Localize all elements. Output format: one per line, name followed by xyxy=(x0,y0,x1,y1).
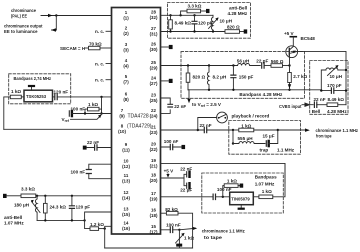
ground blob trimmer xyxy=(176,244,182,247)
capacitor 22 nF decoupling xyxy=(184,174,187,178)
svg-text:100 nF: 100 nF xyxy=(217,187,232,192)
junction at (218.7,117.8) xyxy=(218,117,220,119)
svg-text:(7): (7) xyxy=(123,80,129,85)
IC pin number labels left side xyxy=(118,10,130,231)
svg-text:1 kΩ: 1 kΩ xyxy=(227,179,237,184)
junction at (209,89.8) xyxy=(208,89,210,91)
resistor 1 kOhm shunt in box5 xyxy=(223,186,224,197)
svg-text:10: 10 xyxy=(124,159,129,164)
svg-text:Bandpass: Bandpass xyxy=(255,175,277,180)
wire pin 17 xyxy=(161,196,230,198)
svg-text:22 nF: 22 nF xyxy=(200,123,212,128)
svg-text:8.49 kΩ: 8.49 kΩ xyxy=(328,97,345,102)
resistor 8.49 kOhm CVBS xyxy=(317,104,327,106)
wire pin 26 to terminal xyxy=(161,46,169,48)
junction at (213,31.5) xyxy=(212,30,214,32)
svg-text:to Vref = 2.5 V: to Vref = 2.5 V xyxy=(192,102,222,108)
wire pin 18 xyxy=(161,177,185,179)
junction at (170.5,15.3) xyxy=(169,14,171,16)
wire pin 20 xyxy=(161,146,182,148)
wire pin 28 xyxy=(161,14,214,16)
svg-text:27: 27 xyxy=(151,26,156,31)
svg-text:22 nF: 22 nF xyxy=(180,167,192,172)
svg-text:28: 28 xyxy=(151,10,156,15)
svg-text:(15): (15) xyxy=(122,212,130,217)
+5 V arrow onto pin18 wire xyxy=(167,174,169,176)
wire pin 16 xyxy=(161,212,167,214)
svg-text:21: 21 xyxy=(151,124,156,129)
wire pin 7 xyxy=(72,113,112,115)
junction at (104.7,228.6) xyxy=(104,227,106,229)
dashed box trap 1.1 MHz xyxy=(229,121,301,155)
resistor 820 Ohm vertical shunt xyxy=(187,66,189,74)
svg-text:9: 9 xyxy=(125,142,128,147)
wire up to 3.3k xyxy=(181,11,187,15)
svg-text:(32): (32) xyxy=(150,15,158,20)
svg-text:n. c.: n. c. xyxy=(95,78,104,83)
svg-text:1 kΩ: 1 kΩ xyxy=(88,102,98,107)
terminal pin24 xyxy=(169,79,173,83)
arrowhead to Vref below 2.7 kOhm xyxy=(288,84,291,88)
wire pin 15 xyxy=(161,229,180,231)
svg-text:14: 14 xyxy=(124,221,129,226)
junction at (233.4,89.8) xyxy=(232,89,234,91)
svg-text:chrominance 1.1 MHz: chrominance 1.1 MHz xyxy=(316,128,359,133)
junction at (188,65.5) xyxy=(187,64,189,66)
junction at (71.9,220.4) xyxy=(71,219,73,221)
junction at (277.8,130) xyxy=(277,129,279,131)
junction at (179.4,229.8) xyxy=(178,229,180,231)
wire ground rail bottom xyxy=(105,247,193,249)
svg-text:22 pF: 22 pF xyxy=(256,58,268,63)
inductor 180 uH variable xyxy=(35,196,37,221)
capacitor 22 nF between pins 23-22 xyxy=(168,104,173,107)
+5 V supply bar xyxy=(290,36,296,38)
svg-text:EE to luminance: EE to luminance xyxy=(4,29,38,34)
svg-text:(31): (31) xyxy=(150,31,158,36)
svg-text:2.7 kΩ: 2.7 kΩ xyxy=(293,74,307,79)
svg-text:chrominance 1.1 MHz: chrominance 1.1 MHz xyxy=(202,229,246,234)
svg-text:(TDA4729): (TDA4729) xyxy=(127,123,152,129)
svg-text:15: 15 xyxy=(151,224,156,229)
svg-text:(19): (19) xyxy=(150,197,158,202)
svg-text:19: 19 xyxy=(151,158,156,163)
svg-text:3.3 kΩ: 3.3 kΩ xyxy=(188,3,202,8)
svg-text:to tape: to tape xyxy=(204,235,223,240)
junction at (37.1,195.8) xyxy=(36,195,38,197)
svg-text:(8): (8) xyxy=(123,97,129,102)
svg-text:8: 8 xyxy=(121,124,124,129)
svg-text:170 pF: 170 pF xyxy=(327,83,342,88)
inductor 8.2 uH vertical shunt xyxy=(207,66,209,90)
junction at (45.3,220.4) xyxy=(44,219,46,221)
svg-text:Bell: Bell xyxy=(312,109,320,114)
svg-text:560 Ω: 560 Ω xyxy=(271,59,284,64)
terminal pin26 xyxy=(169,45,173,49)
svg-text:17: 17 xyxy=(151,191,156,196)
terminal pin27 wire end xyxy=(244,29,248,33)
wire pin 21 xyxy=(161,129,234,131)
capacitor 22 pF series xyxy=(262,63,264,68)
svg-text:+5 V: +5 V xyxy=(284,31,295,36)
wire pin 14 corner xyxy=(105,226,112,248)
terminal pin9 wire xyxy=(83,146,87,150)
node trap left xyxy=(232,129,234,131)
svg-text:(PAL) EE: (PAL) EE xyxy=(11,14,27,19)
wire chrominance output EE to luminance xyxy=(52,29,57,31)
filter ground pin stub with bar xyxy=(31,86,33,90)
resistor 1 kOhm box5 output xyxy=(253,196,259,198)
resistor 24.3 kOhm vertical xyxy=(44,196,46,204)
svg-text:70 kΩ: 70 kΩ xyxy=(89,41,102,46)
svg-text:11: 11 xyxy=(124,173,129,178)
op-amp U1 : main IC TDA4728 body xyxy=(112,8,161,235)
svg-text:6: 6 xyxy=(125,92,128,97)
svg-text:1.1 MHz: 1.1 MHz xyxy=(277,148,295,153)
terminal after 1 kOhm box5 xyxy=(240,184,244,188)
wire pin 9 xyxy=(87,147,112,149)
svg-text:Bandpass 4.28 MHz: Bandpass 4.28 MHz xyxy=(239,92,283,97)
wire vertical branch pin1 xyxy=(55,16,57,31)
svg-text:(11): (11) xyxy=(122,147,130,152)
junction at (194.5,15.3) xyxy=(193,14,195,16)
wire 82k to ground rail xyxy=(178,213,193,248)
wire pin1 chrominance input xyxy=(41,15,112,17)
wire filter input corner xyxy=(4,97,11,129)
inductor 10 uH variable xyxy=(211,15,213,31)
junction at (180.6,15.3) xyxy=(179,14,181,16)
svg-text:1: 1 xyxy=(125,10,128,15)
arrowhead CVBS input xyxy=(302,103,313,106)
capacitor 100 nF pin15 xyxy=(170,227,172,232)
svg-text:TIN05079: TIN05079 xyxy=(231,196,250,201)
svg-text:820 Ω: 820 Ω xyxy=(227,25,240,30)
svg-text:120 pF: 120 pF xyxy=(76,204,91,209)
wire base down xyxy=(289,55,291,65)
svg-text:100 nF: 100 nF xyxy=(71,169,86,174)
svg-text:4: 4 xyxy=(125,58,128,63)
svg-text:(4): (4) xyxy=(123,63,129,68)
svg-text:1.07 MHz: 1.07 MHz xyxy=(255,182,275,187)
svg-text:25: 25 xyxy=(151,60,156,65)
svg-text:(29): (29) xyxy=(150,65,158,70)
capacitor 22 nF pin21 xyxy=(204,127,206,132)
svg-text:playback / record: playback / record xyxy=(232,113,270,118)
terminal bottom left anti-bell input xyxy=(3,194,7,198)
wire pin 8 long xyxy=(4,128,112,130)
arrow chrominance to tape xyxy=(179,228,195,230)
svg-text:4.28 MHz: 4.28 MHz xyxy=(228,11,248,16)
svg-text:(10): (10) xyxy=(118,129,126,134)
svg-text:22 μF: 22 μF xyxy=(180,188,192,193)
svg-text:(3): (3) xyxy=(123,48,129,53)
svg-text:1 kΩ: 1 kΩ xyxy=(241,124,251,129)
svg-text:chrominance output: chrominance output xyxy=(4,24,43,29)
junction at (84.6,220.4) xyxy=(83,219,85,221)
svg-text:3.3 kΩ: 3.3 kΩ xyxy=(21,187,35,192)
svg-text:56 μH: 56 μH xyxy=(237,59,250,64)
svg-text:(21): (21) xyxy=(150,163,158,168)
inductor 555 uH trap xyxy=(233,142,265,144)
svg-text:(13): (13) xyxy=(122,179,130,184)
svg-text:trap: trap xyxy=(260,148,269,153)
resistor 820 Ohm series pin27 xyxy=(225,30,240,34)
svg-text:(27): (27) xyxy=(150,81,158,86)
svg-text:555 μH: 555 μH xyxy=(238,136,254,141)
svg-text:100 nF: 100 nF xyxy=(164,139,179,144)
junction at (222.8,196.8) xyxy=(222,196,224,198)
terminal pin20 xyxy=(182,145,186,149)
svg-text:anti-Bell: anti-Bell xyxy=(4,215,22,220)
svg-text:1.07 MHz: 1.07 MHz xyxy=(4,221,24,226)
svg-text:5: 5 xyxy=(125,74,128,79)
junction at (85,113.5) xyxy=(84,112,86,114)
svg-text:12: 12 xyxy=(124,190,129,195)
junction at (233.4,65.5) xyxy=(232,64,234,66)
svg-text:(18): (18) xyxy=(150,213,158,218)
junction at (289.5,89.8) xyxy=(288,89,290,91)
transistor Q1 BC548 xyxy=(286,46,298,58)
svg-text:120 pF: 120 pF xyxy=(198,21,213,26)
svg-text:+5 V: +5 V xyxy=(164,169,175,174)
resistor 560 Ohm series xyxy=(271,64,283,68)
capacitor 150 pF vertical shunt xyxy=(232,66,234,76)
svg-text:(1): (1) xyxy=(123,15,129,20)
svg-text:100 nF: 100 nF xyxy=(71,107,86,112)
svg-text:10 μH: 10 μH xyxy=(330,74,343,79)
svg-text:180 μH: 180 μH xyxy=(14,203,30,208)
svg-text:(14): (14) xyxy=(122,196,130,201)
svg-text:8.2 μH: 8.2 μH xyxy=(213,75,227,80)
svg-text:24.3 kΩ: 24.3 kΩ xyxy=(50,204,67,209)
svg-text:24: 24 xyxy=(151,75,156,80)
capacitor 120 pF bottom left xyxy=(71,196,73,206)
capacitor 100 nF pin17 xyxy=(213,194,215,199)
svg-text:1 kΩ: 1 kΩ xyxy=(262,189,272,194)
svg-text:(22): (22) xyxy=(150,147,158,152)
junction at (233,143.5) xyxy=(232,142,234,144)
resistor 1 kOhm trap xyxy=(233,129,239,131)
svg-text:10 μH: 10 μH xyxy=(220,19,233,24)
dashed box Bell 4.28 MHz xyxy=(310,61,348,115)
filter TIN05079 xyxy=(230,192,254,205)
svg-text:82 kΩ: 82 kΩ xyxy=(165,207,178,212)
svg-text:(17): (17) xyxy=(150,230,158,235)
svg-text:(12): (12) xyxy=(122,164,130,169)
svg-text:Vref: Vref xyxy=(62,117,70,123)
junction at (321.3,90.6) xyxy=(320,89,322,91)
svg-text:SECAM = H: SECAM = H xyxy=(60,46,86,51)
IC pin number labels right side xyxy=(150,10,158,235)
svg-text:150 pF: 150 pF xyxy=(239,74,254,79)
wire emitter to bell filter xyxy=(297,51,346,104)
svg-text:chrominance: chrominance xyxy=(11,8,36,13)
svg-text:(16): (16) xyxy=(122,226,130,231)
wire pin 27 xyxy=(161,31,226,33)
svg-text:(20): (20) xyxy=(150,178,158,183)
svg-text:23: 23 xyxy=(151,92,156,97)
bracket wire pins 10-11 xyxy=(89,164,112,179)
wire filter output xyxy=(53,96,55,98)
wire pin 13 from rail xyxy=(85,212,112,220)
junction at (170.5,31.5) xyxy=(169,30,171,32)
capacitor 170 pF bell xyxy=(331,88,333,93)
wire to pin 6 xyxy=(57,96,111,98)
arrowhead chrominance output pointing left xyxy=(51,28,56,31)
capacitor 120 pF vertical xyxy=(194,15,196,21)
node junction pin6 row xyxy=(100,96,102,98)
svg-text:7: 7 xyxy=(121,108,124,113)
wire switch branch xyxy=(198,118,217,131)
junction at (225.3,117.8) xyxy=(224,117,226,119)
arrowhead chrominance (PAL) EE into node xyxy=(48,14,53,17)
dashed box anti-Bell 4.28 MHz xyxy=(168,3,251,39)
wire pin 25 top rail xyxy=(161,65,238,67)
stub n.c. pin 4 xyxy=(106,63,112,65)
svg-text:CVBS input: CVBS input xyxy=(279,104,302,109)
svg-text:22 nF: 22 nF xyxy=(314,97,326,102)
svg-text:1.2 kΩ: 1.2 kΩ xyxy=(90,222,104,227)
stub n.c. pin 2 xyxy=(106,30,112,32)
junction at (194.5,31.5) xyxy=(193,30,195,32)
wire pin 19 long loop xyxy=(161,163,286,183)
capacitor 22 uF decoupling xyxy=(184,178,187,186)
svg-text:4.28 MHz: 4.28 MHz xyxy=(327,109,347,114)
wire Vref rail xyxy=(188,89,321,91)
svg-text:(24): (24) xyxy=(150,113,158,118)
junction at (346,90.6) xyxy=(345,89,347,91)
inductor 10 uH bell variable xyxy=(321,70,326,90)
resistor 3.3 kOhm bottom left xyxy=(21,194,36,198)
terminal after 3.3 kOhm xyxy=(206,9,210,13)
svg-text:820 Ω: 820 Ω xyxy=(193,74,206,79)
capacitor 15 uF trap xyxy=(265,141,267,146)
arrow to Vref = 2.5 V xyxy=(188,90,190,99)
capacitor 22 nF CVBS xyxy=(314,102,316,107)
svg-text:22: 22 xyxy=(151,108,156,113)
junction at (101.5,113.5) xyxy=(100,112,102,114)
wire pin 12 row xyxy=(36,195,112,197)
svg-text:3: 3 xyxy=(125,42,128,47)
svg-text:n. c.: n. c. xyxy=(95,61,104,66)
wire bottom rail anti-bell xyxy=(37,219,85,221)
svg-text:from tape: from tape xyxy=(316,134,332,139)
svg-text:13: 13 xyxy=(124,206,129,211)
svg-text:Bandpass 2,74 MHz: Bandpass 2,74 MHz xyxy=(14,76,52,81)
stub n.c. pin 5 xyxy=(106,79,112,81)
wire trap output / arrow chrominance from tape xyxy=(278,129,308,131)
capacitor 100 nF pin7 xyxy=(68,111,70,116)
svg-text:n. c.: n. c. xyxy=(95,29,104,34)
svg-text:2: 2 xyxy=(125,26,128,31)
junction at (71.9,195.8) xyxy=(71,195,73,197)
ceramic filter TSK05253 xyxy=(24,90,53,102)
svg-text:8.49 kΩ: 8.49 kΩ xyxy=(175,21,192,26)
resistor 3.3 kOhm top xyxy=(187,9,201,13)
svg-text:22 nF: 22 nF xyxy=(87,140,99,145)
wire vertical pin6-pin7 link xyxy=(101,97,103,114)
resistor 1.2 kOhm xyxy=(90,227,99,231)
svg-text:1 kΩ: 1 kΩ xyxy=(11,89,21,94)
svg-text:TDA4728: TDA4728 xyxy=(128,113,149,119)
resistor 8.49 kOhm vertical xyxy=(170,15,172,19)
svg-text:1 kΩ: 1 kΩ xyxy=(184,236,194,241)
svg-text:TSK05253: TSK05253 xyxy=(26,94,47,99)
junction at (45.3,195.8) xyxy=(44,195,46,197)
svg-text:BC548: BC548 xyxy=(301,36,316,41)
junction at (289.5,65.5) xyxy=(288,64,290,66)
svg-text:(30): (30) xyxy=(150,47,158,52)
svg-text:18: 18 xyxy=(151,172,156,177)
trimmer 1 kOhm variable xyxy=(178,230,180,244)
svg-text:26: 26 xyxy=(151,41,156,46)
Vref arrow to pin7 node xyxy=(71,115,102,119)
svg-text:16: 16 xyxy=(151,208,156,213)
svg-text:15 μF: 15 μF xyxy=(263,133,275,138)
resistor 82 kOhm xyxy=(166,211,178,215)
svg-text:(23): (23) xyxy=(150,130,158,135)
dashed box Bandpass 4.28 MHz xyxy=(181,52,305,99)
junction at (209,65.5) xyxy=(208,64,210,66)
svg-text:anti-Bell: anti-Bell xyxy=(229,5,247,10)
bracket wire pins 23-22 xyxy=(161,98,171,113)
junction at (346,70) xyxy=(345,69,347,71)
svg-text:(9): (9) xyxy=(119,113,125,118)
resistor 2.7 kOhm vertical xyxy=(289,66,291,73)
svg-text:(25): (25) xyxy=(150,98,158,103)
wire down to 1.2 kOhm xyxy=(85,220,90,228)
capacitor 120 nF filter output xyxy=(55,94,57,99)
svg-text:120 nF: 120 nF xyxy=(54,89,69,94)
svg-text:20: 20 xyxy=(151,141,156,146)
resistor 1 kOhm pin7 feed xyxy=(88,107,100,111)
node A junction at pin1 branch xyxy=(55,14,57,16)
junction at (197.8,130) xyxy=(197,129,199,131)
TIN05079 ground stub xyxy=(240,205,242,209)
resistor 1 kOhm filter input xyxy=(10,95,21,99)
dashed box Bandpass 2,74 MHz xyxy=(9,74,71,104)
switch playback / record xyxy=(217,112,228,123)
dashed box Bandpass 1.07 MHz xyxy=(202,173,283,213)
capacitor 22 nF pin9 xyxy=(95,145,97,150)
capacitor 100 nF pin20 xyxy=(170,144,172,149)
svg-text:(2): (2) xyxy=(123,31,129,36)
wire pin 24 to terminal xyxy=(161,80,169,82)
inductor 56 uH series xyxy=(237,64,260,66)
svg-text:22 nF: 22 nF xyxy=(174,104,186,109)
capacitor 100 nF between pins 10-11 xyxy=(86,170,91,174)
resistor 70 kOhm at pin 3 xyxy=(86,47,89,49)
svg-text:100 nF: 100 nF xyxy=(166,223,181,228)
